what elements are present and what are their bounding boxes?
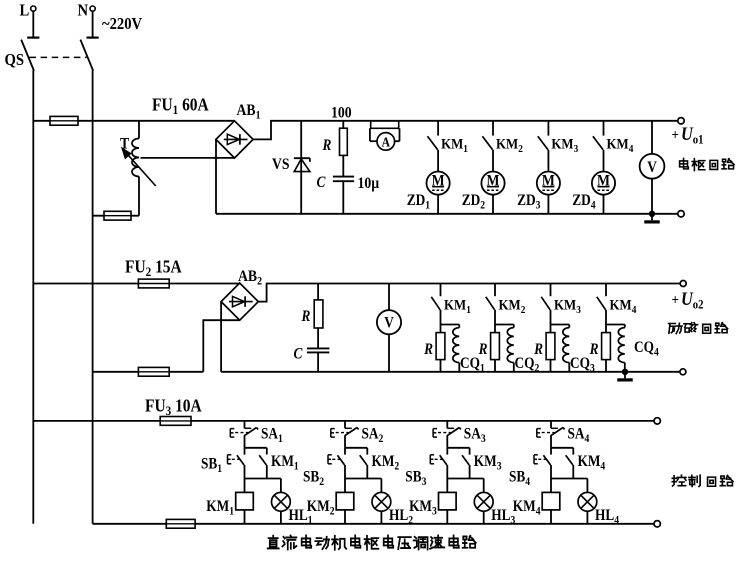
wire KM2 field to split bbox=[494, 310, 496, 325]
wire N to T bottom bbox=[93, 215, 139, 217]
contact KM2 (control) bbox=[366, 448, 368, 455]
rectifier AB2 bbox=[221, 283, 258, 320]
svg-text:V: V bbox=[647, 159, 657, 176]
switch SA4 bbox=[551, 427, 558, 429]
wire KM3 field to split bbox=[550, 310, 552, 325]
zener VS bbox=[300, 121, 302, 214]
voltmeter PV1 bbox=[640, 154, 665, 179]
label kongzhihuilu bbox=[672, 475, 686, 486]
wire armature AC bus bbox=[33, 120, 234, 122]
svg-text:FU3 10A: FU3 10A bbox=[145, 395, 202, 418]
svg-text:C: C bbox=[294, 346, 303, 363]
capacitor C2 bbox=[307, 347, 329, 349]
terminal L bbox=[31, 6, 36, 11]
autotransformer T bbox=[138, 121, 140, 139]
terminal field - bbox=[680, 369, 686, 375]
svg-text:R: R bbox=[423, 341, 433, 358]
svg-text:+: + bbox=[672, 128, 679, 144]
label dianshu huilu bbox=[680, 158, 689, 169]
wire SA3 down bbox=[446, 435, 448, 448]
wire AB2 dc- drop bbox=[220, 302, 222, 372]
wire motor ZD1 bottom bbox=[437, 195, 439, 214]
contact KM1 (field) bbox=[440, 284, 442, 297]
svg-text:A: A bbox=[382, 135, 390, 150]
svg-text:FU1 60A: FU1 60A bbox=[152, 94, 209, 117]
wire N field line bbox=[93, 371, 204, 373]
svg-text:C: C bbox=[317, 174, 326, 191]
wire SA1 down bbox=[244, 435, 246, 448]
wire SA2 from bus bbox=[344, 421, 346, 428]
lamp HL1 bbox=[280, 479, 282, 493]
svg-text:R: R bbox=[589, 341, 599, 358]
wire AB1 dc- drop bbox=[215, 139, 217, 213]
label licihuilu bbox=[669, 323, 682, 333]
caption bbox=[268, 536, 279, 549]
motor ZD1 bbox=[427, 172, 450, 195]
wire SA4 from bus bbox=[550, 421, 552, 428]
svg-text:R: R bbox=[478, 341, 488, 358]
svg-text:R: R bbox=[533, 341, 543, 358]
wire SA1 from bus bbox=[244, 421, 246, 428]
wire KM1 field to split bbox=[440, 310, 442, 325]
svg-text:T: T bbox=[120, 136, 129, 153]
ammeter PA bbox=[377, 133, 395, 151]
switch QS pole N bbox=[80, 40, 93, 71]
svg-text:R: R bbox=[322, 137, 332, 154]
coil KM3 bbox=[446, 479, 448, 493]
ammeter PA shunt bbox=[371, 121, 399, 129]
wire L vertical bbox=[32, 70, 34, 524]
resistor R1 (100) bbox=[342, 121, 344, 128]
wire N vertical bbox=[92, 70, 94, 524]
contact KM1 (armature) bbox=[437, 121, 439, 136]
motor ZD2 bbox=[481, 172, 504, 195]
pushbutton SB2 bbox=[344, 448, 346, 455]
resistor R field 2 bbox=[494, 325, 496, 333]
motor ZD4 bbox=[592, 172, 615, 195]
voltmeter PV1 branch bbox=[651, 121, 653, 154]
terminal +Uo2 bbox=[680, 281, 686, 287]
wire split2 2 bbox=[345, 478, 381, 480]
wire motor ZD4 bottom bbox=[603, 195, 605, 214]
terminal N bbox=[90, 6, 95, 11]
terminal +Uo1 bbox=[678, 118, 684, 124]
resistor R field 1 bbox=[440, 325, 442, 333]
svg-text:QS: QS bbox=[5, 51, 25, 69]
wire SA2 down bbox=[344, 435, 346, 448]
pushbutton SB4 bbox=[550, 448, 552, 455]
switch SA1 bbox=[245, 427, 252, 429]
wire field AC bus bbox=[33, 283, 239, 285]
contact KM4 (field) bbox=[605, 284, 607, 297]
coil KM2 bbox=[344, 479, 346, 493]
wire KM4 field to split bbox=[605, 310, 607, 325]
wire SA3 from bus bbox=[446, 421, 448, 428]
contact KM3 (field) bbox=[550, 284, 552, 297]
wire KM2 to motor bbox=[492, 150, 494, 172]
contact KM4 (armature) bbox=[603, 121, 605, 136]
lamp HL3 bbox=[483, 479, 485, 493]
terminal armature - bbox=[678, 211, 684, 217]
fuse FU2 bbox=[138, 279, 169, 288]
wire motor ZD2 bottom bbox=[492, 195, 494, 214]
switch SA3 bbox=[447, 427, 454, 429]
inductor CQ3 bbox=[568, 325, 570, 328]
motor ZD3 bbox=[537, 172, 560, 195]
inductor CQ1 bbox=[458, 325, 460, 328]
svg-text:100: 100 bbox=[331, 105, 352, 122]
wire SB3 down bbox=[446, 465, 448, 479]
svg-text:N: N bbox=[78, 2, 89, 20]
contact KM4 (control) bbox=[572, 448, 574, 455]
switch QS pole L bbox=[21, 40, 34, 71]
wire split2 4 bbox=[551, 478, 587, 480]
contact KM3 (control) bbox=[469, 448, 471, 455]
wire SB4 down bbox=[550, 465, 552, 479]
contact KM2 (armature) bbox=[492, 121, 494, 136]
coil KM4 bbox=[550, 479, 552, 493]
wire AB2 dc+ jog bbox=[258, 284, 680, 302]
terminal control bottom bbox=[654, 521, 660, 527]
wire KM1 to motor bbox=[437, 150, 439, 172]
pushbutton SB3 bbox=[446, 448, 448, 455]
fuse FU0c (control bottom) bbox=[166, 519, 195, 528]
wire AB1 dc+ jog bbox=[253, 121, 678, 140]
junction field ground node bbox=[622, 369, 628, 375]
coil KM1 bbox=[244, 479, 246, 493]
QS linkage bbox=[30, 56, 87, 58]
contact KM3 (armature) bbox=[547, 121, 549, 136]
resistor R2 bbox=[317, 284, 319, 300]
contact KM1 (control) bbox=[266, 448, 268, 455]
ground (armature) bbox=[651, 214, 653, 221]
wire split2 3 bbox=[447, 478, 483, 480]
junction armature ground node bbox=[649, 211, 655, 217]
capacitor C1 bbox=[333, 176, 354, 178]
ground (field) bbox=[624, 372, 626, 379]
wire armature bottom rail bbox=[216, 213, 678, 215]
fuse FU1 bbox=[50, 116, 78, 125]
fuse FU3 bbox=[160, 417, 191, 426]
svg-text:~220V: ~220V bbox=[102, 15, 143, 33]
terminal control top bbox=[654, 418, 660, 424]
fuse FU0b (field N line) bbox=[138, 367, 169, 376]
wire motor ZD3 bottom bbox=[547, 195, 549, 214]
resistor R field 3 bbox=[550, 325, 552, 333]
inductor CQ2 bbox=[513, 325, 515, 328]
resistor R field 4 bbox=[605, 325, 607, 333]
rectifier AB1 bbox=[216, 121, 253, 158]
wire KM3 to motor bbox=[547, 150, 549, 172]
lamp HL4 bbox=[586, 479, 588, 493]
svg-text:10µ: 10µ bbox=[358, 175, 380, 192]
wire control top bus bbox=[33, 420, 654, 422]
wire SB1 down bbox=[244, 465, 246, 479]
svg-text:V: V bbox=[384, 315, 394, 332]
svg-text:VS: VS bbox=[272, 156, 290, 173]
pushbutton SB1 bbox=[244, 448, 246, 455]
svg-text:+: + bbox=[672, 293, 679, 309]
wire SB2 down bbox=[344, 465, 346, 479]
contact KM2 (field) bbox=[494, 284, 496, 297]
wire split2 1 bbox=[245, 478, 281, 480]
voltmeter PV2 bbox=[377, 310, 401, 334]
wire control bottom bus bbox=[93, 523, 654, 525]
switch SA2 bbox=[345, 427, 352, 429]
lamp HL2 bbox=[380, 479, 382, 493]
wire T tap to bridge bbox=[141, 157, 235, 159]
wire field bottom rail bbox=[221, 371, 680, 373]
svg-text:FU2 15A: FU2 15A bbox=[125, 256, 182, 279]
voltmeter PV2 branch bbox=[388, 284, 390, 311]
svg-text:L: L bbox=[20, 2, 30, 20]
inductor CQ4 bbox=[624, 325, 626, 328]
fuse FU0 (T line) bbox=[104, 211, 131, 220]
wire SA4 down bbox=[550, 435, 552, 448]
wire field ac2 step bbox=[203, 320, 239, 372]
svg-text:R: R bbox=[301, 308, 311, 325]
wire KM4 to motor bbox=[603, 150, 605, 172]
